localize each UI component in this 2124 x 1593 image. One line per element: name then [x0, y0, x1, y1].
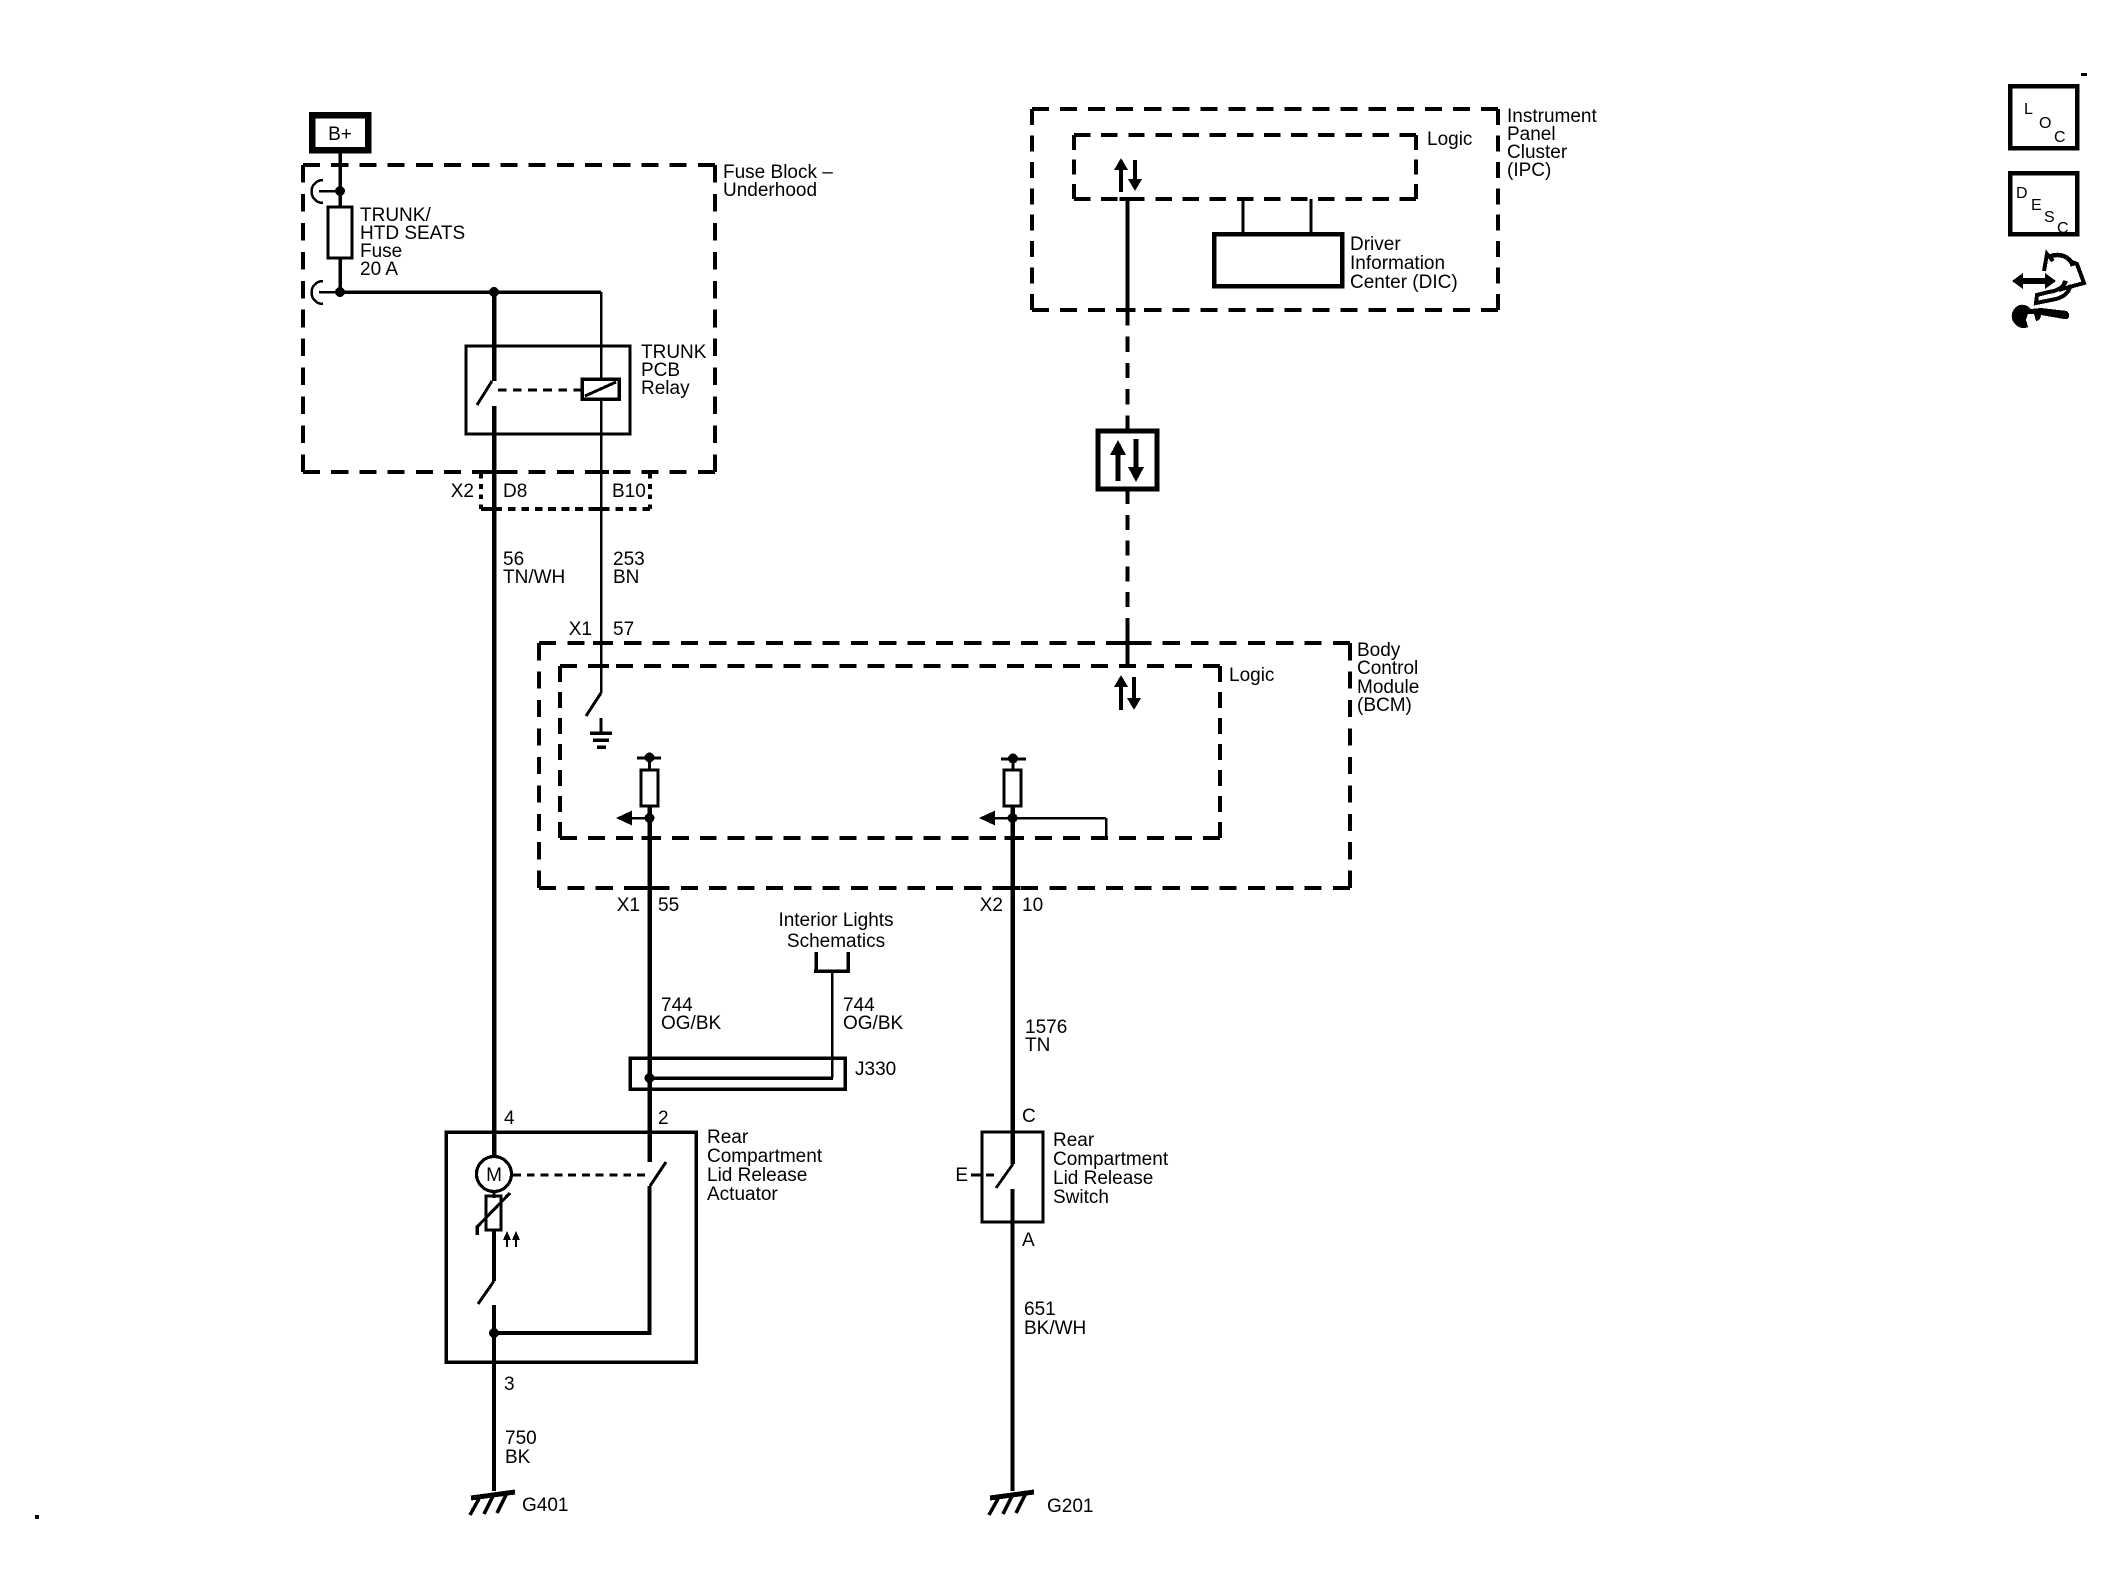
svg-text:Underhood: Underhood: [723, 180, 817, 201]
svg-text:C: C: [1022, 1106, 1036, 1127]
svg-text:57: 57: [613, 619, 634, 640]
svg-text:651: 651: [1024, 1299, 1056, 1320]
svg-text:Rear: Rear: [1053, 1130, 1095, 1151]
svg-text:Interior Lights: Interior Lights: [778, 910, 893, 931]
svg-text:20 A: 20 A: [360, 259, 398, 280]
svg-text:B10: B10: [612, 481, 646, 502]
svg-text:Schematics: Schematics: [787, 931, 885, 952]
svg-text:Driver: Driver: [1350, 234, 1401, 255]
svg-text:Information: Information: [1350, 253, 1445, 274]
svg-text:(IPC): (IPC): [1507, 160, 1551, 181]
svg-text:Compartment: Compartment: [707, 1146, 823, 1167]
svg-text:Switch: Switch: [1053, 1187, 1109, 1208]
svg-text:B+: B+: [328, 124, 352, 145]
svg-text:Logic: Logic: [1229, 665, 1274, 686]
svg-text:Lid Release: Lid Release: [1053, 1168, 1153, 1189]
svg-text:C: C: [2057, 220, 2069, 237]
svg-text:2: 2: [658, 1108, 669, 1129]
svg-text:BK: BK: [505, 1447, 531, 1468]
svg-text:Compartment: Compartment: [1053, 1149, 1169, 1170]
svg-text:X2: X2: [980, 895, 1003, 916]
svg-text:(BCM): (BCM): [1357, 695, 1412, 716]
svg-text:3: 3: [504, 1374, 515, 1395]
svg-text:S: S: [2044, 209, 2055, 226]
svg-text:X2: X2: [451, 481, 474, 502]
svg-text:G201: G201: [1047, 1496, 1093, 1517]
svg-text:J330: J330: [855, 1059, 896, 1080]
svg-text:X1: X1: [569, 619, 592, 640]
svg-text:4: 4: [504, 1108, 515, 1129]
svg-text:O: O: [2039, 115, 2051, 132]
svg-text:OG/BK: OG/BK: [843, 1013, 904, 1034]
svg-text:Actuator: Actuator: [707, 1184, 778, 1205]
svg-text:D8: D8: [503, 481, 527, 502]
svg-text:55: 55: [658, 895, 679, 916]
svg-text:BK/WH: BK/WH: [1024, 1318, 1086, 1339]
svg-text:E: E: [2031, 197, 2042, 214]
svg-text:D: D: [2016, 185, 2028, 202]
svg-text:Logic: Logic: [1427, 129, 1472, 150]
svg-text:Center (DIC): Center (DIC): [1350, 272, 1458, 293]
svg-text:OG/BK: OG/BK: [661, 1013, 722, 1034]
svg-text:L: L: [2024, 101, 2033, 118]
svg-text:E: E: [955, 1165, 968, 1186]
svg-text:X1: X1: [617, 895, 640, 916]
svg-text:Lid Release: Lid Release: [707, 1165, 807, 1186]
svg-text:C: C: [2054, 129, 2066, 146]
svg-text:TN: TN: [1025, 1035, 1050, 1056]
svg-text:BN: BN: [613, 567, 639, 588]
svg-text:A: A: [1022, 1230, 1035, 1251]
svg-text:M: M: [486, 1165, 502, 1186]
svg-text:750: 750: [505, 1428, 537, 1449]
svg-text:G401: G401: [522, 1495, 568, 1516]
svg-text:Rear: Rear: [707, 1127, 749, 1148]
svg-text:Control: Control: [1357, 658, 1418, 679]
svg-text:TN/WH: TN/WH: [503, 567, 565, 588]
svg-text:Relay: Relay: [641, 378, 690, 399]
svg-text:10: 10: [1022, 895, 1043, 916]
